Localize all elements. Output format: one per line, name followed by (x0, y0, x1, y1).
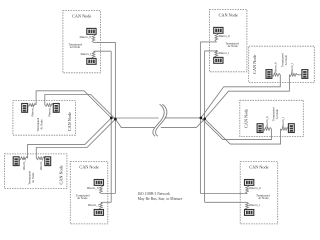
CAN node 6 enclosure (4, 154, 67, 189)
resistor Rterm_l (node 8) (246, 202, 249, 209)
svg-text:Rterm_l: Rterm_l (81, 52, 92, 56)
svg-text:At Node: At Node (77, 196, 88, 200)
wire vertical trunk left CAN_H (114, 42, 116, 193)
svg-text:Rterm_h: Rterm_h (249, 186, 261, 190)
svg-text:CAN Node: CAN Node (219, 12, 238, 17)
resistor Rterm_h (node 8) (246, 185, 249, 193)
wire node5 CAN_H to bus (36, 91, 111, 118)
node D junction (203, 118, 206, 121)
svg-text:CAN Node: CAN Node (67, 112, 72, 131)
wire node6 CAN_L to bus (36, 119, 115, 158)
resistor Rterm_l (node 7) (100, 202, 103, 209)
value label 510 (node 5 right) (53, 104, 59, 113)
bus break squiggle right curve (156, 104, 167, 136)
svg-text:Rterm_l: Rterm_l (47, 106, 51, 117)
svg-text:CAN Node: CAN Node (252, 54, 257, 73)
wire vertical trunk right CAN_H (199, 42, 201, 194)
wire node4 CAN_L to bus (205, 119, 281, 144)
wire node6 CAN_H to bus (28, 118, 112, 158)
wire node3 CAN_H to bus (201, 75, 280, 118)
value label 510 (node 4 left) (257, 124, 263, 133)
svg-text:Rterm_l: Rterm_l (219, 51, 230, 55)
value label 510 (node 5 left) (22, 104, 28, 113)
value label 510 (node 7 lower) (94, 210, 103, 216)
svg-text:Rterm_h: Rterm_h (274, 62, 278, 74)
value label 510 (node 2 upper) (214, 27, 223, 33)
resistor Rterm_h (node 2) (215, 33, 218, 41)
CAN node 7 enclosure (70, 162, 108, 224)
wire node8 CAN_L to bus (205, 201, 248, 203)
wire node2 CAN_H to bus (200, 41, 216, 43)
resistor Rterm_h (node 5) (28, 104, 36, 107)
value label 510 (node 8 lower) (245, 210, 254, 216)
svg-text:ISO 11898-3 Network: ISO 11898-3 Network (138, 192, 170, 196)
svg-text:Rterm_h: Rterm_h (22, 158, 26, 170)
wire node1 CAN_H to bus (94, 41, 116, 43)
svg-text:At Node: At Node (227, 44, 238, 48)
CAN node 1 enclosure (63, 11, 101, 73)
wire node5 CAN_L to bus (45, 95, 116, 120)
wire node7 CAN_L to bus (101, 201, 111, 203)
value label 510 (node 3 left) (266, 70, 272, 79)
resistor Rterm_l (node 4) (281, 128, 289, 131)
resistor Rterm_l (node 2) (215, 50, 218, 57)
svg-text:At Node: At Node (284, 54, 288, 65)
node C junction (200, 117, 203, 120)
bus break squiggle left curve (153, 104, 164, 136)
node A junction (110, 117, 113, 120)
svg-text:At Node: At Node (39, 119, 43, 130)
value label 510 (node 1 lower) (87, 58, 96, 64)
svg-text:Rterm_h: Rterm_h (80, 35, 92, 39)
value label 510 (node 8 upper) (245, 180, 254, 186)
CAN node 4 enclosure (240, 100, 303, 136)
resistor Rterm_h (node 7) (100, 185, 103, 193)
svg-text:At Node: At Node (258, 196, 269, 200)
resistor Rterm_l (node 1) (92, 51, 95, 58)
resistor Rterm_h (node 4) (263, 128, 271, 131)
svg-text:Rterm_l: Rterm_l (88, 203, 99, 207)
svg-text:At Node: At Node (31, 172, 35, 183)
svg-text:CAN Node: CAN Node (243, 109, 248, 128)
wire node7 CAN_H to bus (101, 193, 116, 195)
wire bus CAN_L (bottom) right segment (161, 119, 205, 128)
CAN node 5 enclosure (13, 101, 76, 136)
svg-text:Rterm_h: Rterm_h (87, 186, 99, 190)
wire vertical trunk right CAN_L (204, 51, 206, 202)
CAN node 8 enclosure (240, 162, 278, 224)
svg-text:Rterm_h: Rterm_h (265, 116, 269, 128)
svg-text:CAN Node: CAN Node (249, 165, 268, 170)
value label 510 (node 6 left) (13, 157, 19, 166)
svg-text:Rterm_l: Rterm_l (39, 159, 43, 170)
svg-text:CAN Node: CAN Node (79, 165, 98, 170)
resistor Rterm_h (node 3) (272, 73, 280, 76)
svg-text:Rterm_l: Rterm_l (249, 203, 260, 207)
svg-text:CAN Node: CAN Node (59, 165, 64, 184)
wire bus CAN_H (top) right segment (165, 117, 201, 119)
wire bus CAN_H (top) left segment (111, 117, 158, 119)
wire node3 CAN_L to bus (205, 75, 290, 119)
wire resistor to value label (node 3) (297, 74, 302, 76)
CAN node 2 enclosure (209, 10, 247, 72)
resistor Rterm_l (node 3) (289, 73, 297, 76)
wire node1 CAN_L to bus (94, 50, 112, 52)
value label 510 (node 3 right) (302, 70, 308, 79)
resistor Rterm_l (node 5) (45, 104, 53, 107)
value label 510 (node 2 lower) (214, 57, 223, 63)
CAN node 3 enclosure (249, 46, 315, 82)
node B junction (114, 118, 117, 121)
resistor Rterm_l (node 6) (36, 157, 44, 160)
wire vertical trunk left CAN_L (110, 51, 112, 202)
svg-text:At Node: At Node (275, 109, 279, 120)
wire node2 CAN_L to bus (205, 49, 217, 52)
value label 510 (node 6 right) (45, 157, 51, 166)
resistor Rterm_h (node 1) (92, 34, 95, 42)
wire bus CAN_L (bottom) left segment (115, 119, 154, 127)
svg-text:Rterm_h: Rterm_h (31, 105, 35, 117)
wire node8 CAN_H to bus (200, 193, 247, 195)
resistor Rterm_h (node 6) (19, 157, 27, 160)
svg-text:Rterm_l: Rterm_l (290, 63, 294, 74)
value label 510 (node 1 upper) (87, 28, 96, 34)
svg-text:Rterm_l: Rterm_l (281, 117, 285, 128)
svg-text:Rterm_h: Rterm_h (219, 34, 231, 38)
value label 510 (node 7 upper) (94, 180, 103, 186)
svg-text:At Node: At Node (70, 45, 81, 49)
wire node4 CAN_H to bus (201, 118, 272, 140)
svg-text:CAN Node: CAN Node (72, 13, 91, 18)
value label 510 (node 4 right) (288, 124, 294, 133)
